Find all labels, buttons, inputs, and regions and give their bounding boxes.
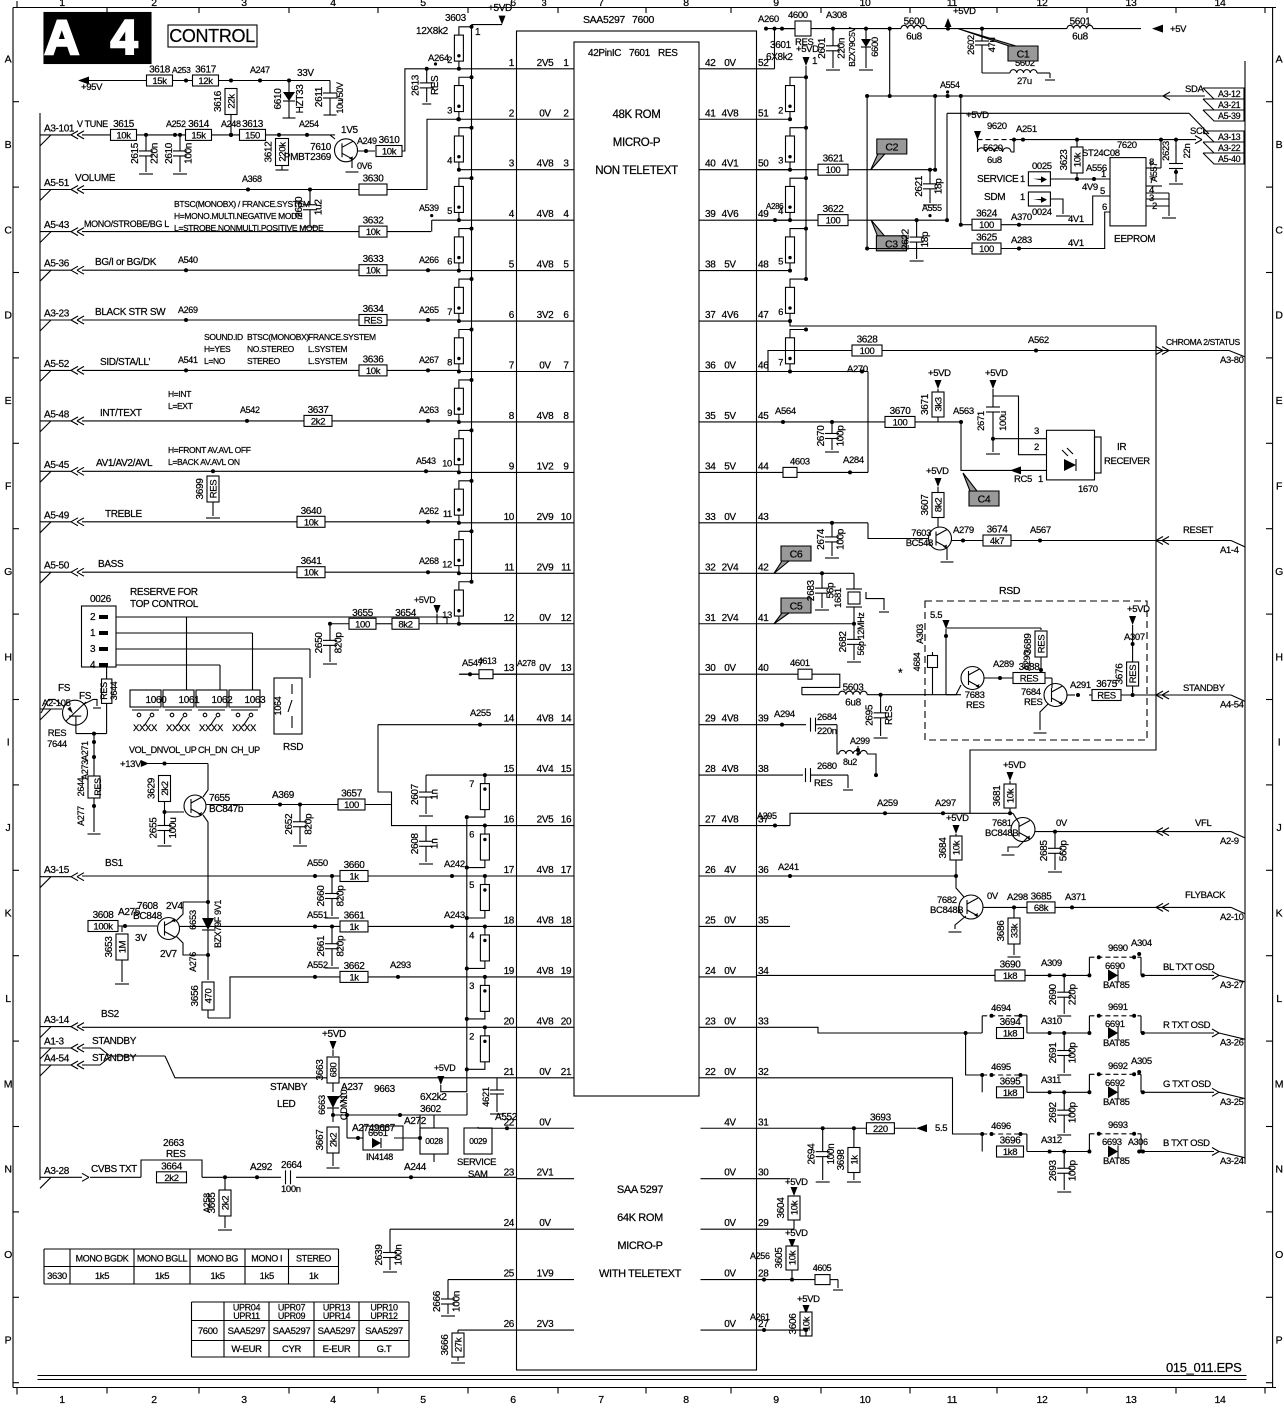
svg-text:0V: 0V xyxy=(539,613,551,624)
svg-text:3628: 3628 xyxy=(857,335,879,346)
svg-text:3634: 3634 xyxy=(363,304,385,315)
resistor 3601-3 xyxy=(804,126,808,130)
inductor 5603 6u8 xyxy=(802,694,839,696)
CONTROL label box xyxy=(168,25,257,47)
svg-text:100: 100 xyxy=(344,800,359,811)
svg-text:RES: RES xyxy=(430,75,441,95)
svg-text:3616: 3616 xyxy=(213,90,224,112)
svg-text:5601: 5601 xyxy=(1070,17,1092,28)
svg-text:2683: 2683 xyxy=(806,579,817,601)
svg-text:0V: 0V xyxy=(724,512,736,523)
svg-text:100: 100 xyxy=(826,216,841,227)
svg-text:0V6: 0V6 xyxy=(357,161,372,171)
pin row right 51 (net 4V8) xyxy=(699,118,757,120)
svg-text:O: O xyxy=(4,1249,12,1261)
pin row left 4 (net 4V8) xyxy=(517,219,575,221)
svg-text:5V: 5V xyxy=(724,461,736,472)
svg-text:A4-54: A4-54 xyxy=(1220,700,1244,711)
svg-text:G: G xyxy=(4,566,12,578)
wire row18 line 3661 xyxy=(179,925,340,927)
svg-text:3656: 3656 xyxy=(190,985,201,1007)
svg-text:A279: A279 xyxy=(953,525,974,536)
svg-text:E-EUR: E-EUR xyxy=(323,1344,351,1355)
resistor 3621 100 xyxy=(757,169,819,171)
svg-text:A551: A551 xyxy=(307,910,328,921)
svg-text:3: 3 xyxy=(563,159,569,170)
svg-text:AV1/AV2/AVL: AV1/AV2/AVL xyxy=(96,458,153,469)
svg-text:2V4: 2V4 xyxy=(722,562,740,573)
pin row right 43 (net 0V) xyxy=(699,522,757,524)
svg-text:A262: A262 xyxy=(419,506,439,516)
svg-text:L: L xyxy=(1276,993,1282,1005)
resistor 3633 10k xyxy=(359,265,387,276)
svg-text:2623: 2623 xyxy=(1161,141,1172,161)
svg-text:1k: 1k xyxy=(849,1155,860,1165)
resistor 3605 10k xyxy=(786,1246,798,1270)
svg-text:RC5: RC5 xyxy=(1014,474,1032,485)
resistor 3603-11 xyxy=(470,479,474,483)
resistor 3614 15k xyxy=(186,129,212,140)
svg-text:C1: C1 xyxy=(1017,49,1030,61)
svg-text:27: 27 xyxy=(705,815,716,826)
pin row right 41 (net 2V4) xyxy=(699,623,757,625)
pin row left 22 (net 0V) xyxy=(517,1127,575,1129)
svg-text:A: A xyxy=(5,54,12,66)
svg-text:3: 3 xyxy=(241,1394,247,1406)
svg-text:9692: 9692 xyxy=(1108,1061,1128,1072)
svg-text:BS1: BS1 xyxy=(105,858,124,869)
svg-text:3: 3 xyxy=(509,159,515,170)
svg-text:1: 1 xyxy=(1038,474,1043,485)
svg-text:A563: A563 xyxy=(953,406,974,417)
svg-text:A298: A298 xyxy=(1007,892,1028,903)
link 4684 xyxy=(928,656,938,668)
svg-text:1: 1 xyxy=(563,58,569,69)
resistor 3685 68k xyxy=(1027,902,1055,913)
svg-text:5: 5 xyxy=(1100,186,1105,197)
svg-text:2650: 2650 xyxy=(314,632,325,654)
svg-text:33k: 33k xyxy=(1010,923,1021,938)
svg-text:42PinIC: 42PinIC xyxy=(588,48,621,59)
svg-text:2601: 2601 xyxy=(817,37,828,59)
svg-text:8: 8 xyxy=(509,411,515,422)
svg-text:33: 33 xyxy=(758,1016,769,1027)
pin row left 20 (net 4V8) xyxy=(517,1026,575,1028)
svg-text:BC847b: BC847b xyxy=(209,804,244,815)
svg-text:2: 2 xyxy=(151,1394,157,1406)
svg-text:4V8: 4V8 xyxy=(537,209,555,220)
svg-text:RES: RES xyxy=(814,778,832,789)
resistor 3608 100k xyxy=(88,921,118,932)
svg-text:+95V: +95V xyxy=(81,82,103,93)
resistor 3603-12 xyxy=(470,529,474,533)
svg-text:K: K xyxy=(5,908,12,920)
svg-text:STANDBY: STANDBY xyxy=(92,1036,137,1047)
wire TREBLE line xyxy=(82,521,297,523)
svg-text:820p: 820p xyxy=(334,632,345,654)
svg-text:3V: 3V xyxy=(135,933,147,944)
svg-text:10: 10 xyxy=(442,458,452,469)
svg-text:3614: 3614 xyxy=(188,119,210,130)
svg-text:A368: A368 xyxy=(242,174,262,184)
svg-text:1061: 1061 xyxy=(179,695,201,706)
svg-text:3663: 3663 xyxy=(315,1059,326,1081)
svg-text:J: J xyxy=(1277,822,1282,834)
svg-text:29: 29 xyxy=(705,714,716,725)
svg-text:RES: RES xyxy=(48,728,66,739)
svg-text:M: M xyxy=(4,1078,12,1090)
svg-text:+5VD: +5VD xyxy=(785,1177,808,1188)
svg-text:+5VD: +5VD xyxy=(1003,760,1026,771)
svg-text:FLYBACK: FLYBACK xyxy=(1185,890,1226,901)
svg-text:1k5: 1k5 xyxy=(210,1271,224,1282)
link 4605 xyxy=(815,1275,830,1285)
svg-text:3689: 3689 xyxy=(1023,633,1034,655)
capacitor 2652 820p xyxy=(298,803,302,807)
svg-text:7: 7 xyxy=(509,361,515,372)
svg-text:A562: A562 xyxy=(1028,335,1049,346)
capacitor 2674 100p xyxy=(830,521,834,525)
capacitor 2602 47u xyxy=(980,27,984,31)
svg-text:18: 18 xyxy=(561,915,572,926)
svg-text:100: 100 xyxy=(355,619,370,630)
IC 7601 inner box xyxy=(574,42,699,1096)
svg-text:1k: 1k xyxy=(349,972,359,983)
svg-text:100p: 100p xyxy=(1068,1160,1079,1182)
svg-text:32: 32 xyxy=(705,562,716,573)
svg-text:15: 15 xyxy=(504,764,515,775)
svg-text:A552: A552 xyxy=(307,960,328,971)
svg-text:BL TXT OSD: BL TXT OSD xyxy=(1163,962,1215,973)
resistor 3693 220 xyxy=(866,1123,894,1134)
svg-text:6: 6 xyxy=(509,310,515,321)
resistor 3625 100 xyxy=(867,248,972,250)
svg-text:43: 43 xyxy=(758,512,769,523)
svg-text:RSD: RSD xyxy=(283,742,303,753)
wire row6 long route to VFL base xyxy=(790,321,1156,813)
svg-text:5V: 5V xyxy=(724,411,736,422)
svg-text:7655: 7655 xyxy=(209,793,231,804)
svg-text:A255: A255 xyxy=(470,708,491,719)
svg-text:A237: A237 xyxy=(341,1082,364,1093)
svg-text:21: 21 xyxy=(561,1067,572,1078)
svg-text:A260: A260 xyxy=(758,14,779,25)
svg-text:64K ROM: 64K ROM xyxy=(617,1212,663,1224)
resistor 3636 10k xyxy=(359,365,387,376)
svg-text:3601: 3601 xyxy=(770,40,792,51)
svg-text:1M: 1M xyxy=(118,940,129,953)
link 4601 xyxy=(798,669,812,679)
wire B TXT OSD from row21 xyxy=(757,1078,983,1134)
svg-text:7: 7 xyxy=(778,358,783,369)
svg-text:7644: 7644 xyxy=(47,739,67,750)
svg-text:LED: LED xyxy=(277,1099,296,1110)
resistor 3665 2k2 xyxy=(223,1175,227,1179)
svg-text:PMBT2369: PMBT2369 xyxy=(284,152,332,163)
svg-text:2: 2 xyxy=(1034,442,1039,453)
svg-text:100: 100 xyxy=(979,244,994,255)
svg-text:680: 680 xyxy=(329,1063,340,1078)
svg-text:2608: 2608 xyxy=(410,833,421,855)
svg-text:2695: 2695 xyxy=(865,704,876,726)
pin row left 6 (net 3V2) xyxy=(517,320,575,322)
svg-text:6: 6 xyxy=(510,1394,516,1406)
pin row right 52 (net 0V) xyxy=(699,68,757,70)
svg-text:A5-48: A5-48 xyxy=(44,409,70,420)
resistor 3670 100 xyxy=(885,416,915,427)
svg-text:P: P xyxy=(5,1335,12,1347)
wire LED node to 9663 xyxy=(333,1114,430,1116)
svg-text:3695: 3695 xyxy=(1000,1076,1022,1087)
svg-text:H=FRONT AV.AVL OFF: H=FRONT AV.AVL OFF xyxy=(168,445,251,455)
svg-text:L.SYSTEM: L.SYSTEM xyxy=(308,344,348,354)
svg-text:22k: 22k xyxy=(227,94,238,109)
svg-text:14: 14 xyxy=(561,714,572,725)
capacitor 2682 56p xyxy=(852,622,856,626)
svg-text:0V: 0V xyxy=(987,891,999,902)
svg-text:3676: 3676 xyxy=(1115,663,1126,685)
capacitor 2670 100p xyxy=(830,420,834,424)
svg-text:8k2: 8k2 xyxy=(934,498,945,512)
svg-text:+5VD: +5VD xyxy=(434,1063,456,1073)
svg-text:0V: 0V xyxy=(724,915,736,926)
pin row left 7 (net 0V) xyxy=(517,371,575,373)
svg-text:L.SYSTEM: L.SYSTEM xyxy=(308,356,348,366)
svg-text:+5VD: +5VD xyxy=(785,1228,808,1239)
svg-text:38: 38 xyxy=(705,260,716,271)
svg-text:MONO BGDK: MONO BGDK xyxy=(76,1254,129,1264)
svg-text:4V8: 4V8 xyxy=(722,108,740,119)
svg-text:2k2: 2k2 xyxy=(160,781,171,795)
svg-text:C5: C5 xyxy=(790,601,803,613)
svg-text:4V1: 4V1 xyxy=(1068,238,1084,249)
svg-text:A252: A252 xyxy=(166,119,186,129)
svg-text:13: 13 xyxy=(561,663,572,674)
svg-text:25: 25 xyxy=(504,1269,515,1280)
svg-text:4V8: 4V8 xyxy=(537,714,555,725)
svg-text:G TXT OSD: G TXT OSD xyxy=(1163,1079,1211,1090)
svg-text:4V6: 4V6 xyxy=(722,310,740,321)
jumper 0028 box xyxy=(420,1128,448,1154)
svg-text:+5VD: +5VD xyxy=(966,110,989,121)
svg-text:A541: A541 xyxy=(178,355,198,365)
capacitor 2607 1n xyxy=(425,775,427,792)
svg-text:17: 17 xyxy=(504,865,515,876)
svg-text:2V3: 2V3 xyxy=(537,1319,555,1330)
diode 6690 BAT85 + 9690 dashed xyxy=(1087,973,1091,977)
svg-text:1060: 1060 xyxy=(146,695,168,706)
svg-text:18: 18 xyxy=(504,915,515,926)
flag C5 xyxy=(774,598,811,624)
resistor 3628 100 xyxy=(852,345,882,356)
svg-text:A307: A307 xyxy=(1124,632,1145,643)
svg-text:2607: 2607 xyxy=(410,783,421,805)
svg-text:5.5: 5.5 xyxy=(930,610,942,621)
svg-text:NO.STEREO: NO.STEREO xyxy=(247,344,295,354)
svg-text:560p: 560p xyxy=(1059,840,1070,862)
resistor 3602-4 xyxy=(483,924,487,928)
svg-text:6u8: 6u8 xyxy=(845,698,861,709)
svg-text:100n: 100n xyxy=(184,143,195,164)
svg-text:2670: 2670 xyxy=(816,425,827,447)
svg-text:2685: 2685 xyxy=(1039,840,1050,862)
svg-text:0V: 0V xyxy=(539,663,551,674)
svg-text:H=INT: H=INT xyxy=(168,389,191,399)
svg-text:A3-24: A3-24 xyxy=(1220,1156,1244,1167)
svg-text:3632: 3632 xyxy=(363,216,385,227)
resistor 3686 33k xyxy=(1013,907,1015,918)
svg-text:3: 3 xyxy=(447,105,452,116)
svg-text:K: K xyxy=(1276,908,1283,920)
capacitor 2630 1u2 xyxy=(308,188,312,192)
svg-text:RES: RES xyxy=(966,700,984,711)
svg-text:015_011.EPS: 015_011.EPS xyxy=(1166,1360,1242,1375)
resistor 3655 100 xyxy=(349,618,376,629)
pin row right 48 (net 5V) xyxy=(699,270,757,272)
svg-text:1u2: 1u2 xyxy=(314,199,325,215)
svg-text:0V: 0V xyxy=(724,1218,736,1229)
resistor 3684 10k xyxy=(950,836,962,860)
svg-text:0V: 0V xyxy=(724,58,736,69)
svg-text:3607: 3607 xyxy=(920,494,931,516)
svg-text:2680: 2680 xyxy=(817,761,837,772)
svg-text:A248: A248 xyxy=(221,119,241,129)
resistor 3622 100 xyxy=(757,219,819,221)
svg-text:2: 2 xyxy=(778,105,783,116)
svg-text:7620: 7620 xyxy=(1117,140,1137,151)
svg-text:1: 1 xyxy=(475,27,481,38)
svg-text:A370: A370 xyxy=(1011,212,1032,223)
pin row left 15 (net 4V4) xyxy=(517,774,575,776)
svg-text:2: 2 xyxy=(151,0,157,9)
svg-text:E: E xyxy=(5,395,12,407)
svg-text:UPR09: UPR09 xyxy=(278,1311,306,1321)
svg-text:N: N xyxy=(1275,1164,1282,1176)
svg-text:1: 1 xyxy=(509,58,515,69)
svg-text:BAT85: BAT85 xyxy=(1103,1156,1130,1167)
svg-text:26: 26 xyxy=(504,1319,515,1330)
svg-text:100: 100 xyxy=(860,346,875,357)
svg-text:A241: A241 xyxy=(778,862,799,873)
svg-text:C6: C6 xyxy=(790,549,803,561)
svg-text:3610: 3610 xyxy=(379,135,401,146)
svg-text:A3-15: A3-15 xyxy=(44,865,70,876)
svg-text:220: 220 xyxy=(873,1124,888,1135)
svg-text:2V4: 2V4 xyxy=(722,613,740,624)
svg-text:A308: A308 xyxy=(826,10,847,21)
svg-text:3698: 3698 xyxy=(836,1149,847,1171)
svg-text:21: 21 xyxy=(504,1067,515,1078)
svg-text:3641: 3641 xyxy=(301,556,323,567)
svg-text:10k: 10k xyxy=(116,130,131,141)
svg-text:12k: 12k xyxy=(198,76,213,87)
svg-text:3625: 3625 xyxy=(976,233,998,244)
transistor 7603 BC548 xyxy=(929,527,952,550)
svg-text:4V8: 4V8 xyxy=(537,966,555,977)
svg-text:10k: 10k xyxy=(304,568,319,579)
svg-text:4: 4 xyxy=(330,0,336,9)
svg-text:A371: A371 xyxy=(1065,892,1086,903)
svg-text:29: 29 xyxy=(758,1218,769,1229)
wire VOLUME line xyxy=(82,189,248,191)
svg-text:4600: 4600 xyxy=(788,10,808,21)
resistor 3623 10k xyxy=(1075,138,1079,142)
svg-text:CHROMA 2/STATUS: CHROMA 2/STATUS xyxy=(1166,337,1240,347)
svg-text:9: 9 xyxy=(563,461,569,472)
svg-text:3: 3 xyxy=(241,0,247,9)
svg-text:0V: 0V xyxy=(539,1067,551,1078)
svg-text:3660: 3660 xyxy=(344,860,366,871)
svg-text:A1-4: A1-4 xyxy=(1220,545,1239,556)
svg-text:2684: 2684 xyxy=(817,712,837,723)
wire 7644 collector to ground xyxy=(84,699,97,706)
pin row right 34 (net 0V) xyxy=(699,976,757,978)
transistor 7644 FS sensor xyxy=(63,700,88,725)
svg-text:3V2: 3V2 xyxy=(537,310,555,321)
wire G TXT OSD xyxy=(966,1033,983,1075)
svg-text:1: 1 xyxy=(1101,169,1106,180)
svg-text:12: 12 xyxy=(561,613,572,624)
resistor 3699 RES shunt xyxy=(211,469,215,473)
svg-text:0V: 0V xyxy=(539,1218,551,1229)
svg-text:STEREO: STEREO xyxy=(296,1254,331,1264)
svg-text:A3-12: A3-12 xyxy=(1218,89,1241,99)
svg-text:MONO BGLL: MONO BGLL xyxy=(137,1254,188,1264)
svg-text:RSD: RSD xyxy=(999,585,1021,597)
resistor 3653 1M xyxy=(121,926,123,932)
svg-text:45: 45 xyxy=(758,411,769,422)
svg-text:1064: 1064 xyxy=(273,696,283,715)
svg-text:28: 28 xyxy=(705,764,716,775)
svg-text:4695: 4695 xyxy=(991,1062,1011,1073)
svg-text:+5V: +5V xyxy=(1170,24,1187,35)
wire row14 2684 5605 xyxy=(757,724,807,726)
svg-text:40: 40 xyxy=(705,159,716,170)
wire row25 4605 xyxy=(757,1279,816,1281)
svg-text:3644: 3644 xyxy=(109,681,119,700)
svg-text:A5-39: A5-39 xyxy=(1218,111,1241,121)
capacitor 2613 RES xyxy=(426,69,428,83)
svg-text:22n: 22n xyxy=(1182,144,1193,159)
svg-text:4V8: 4V8 xyxy=(537,1016,555,1027)
svg-text:A289: A289 xyxy=(993,659,1014,670)
svg-text:12: 12 xyxy=(1037,1394,1048,1406)
resistor 3601-7 xyxy=(804,328,808,332)
svg-text:MONO/STROBE/BG L: MONO/STROBE/BG L xyxy=(84,219,169,229)
svg-text:2690: 2690 xyxy=(1048,983,1059,1005)
svg-text:A256: A256 xyxy=(750,1251,770,1261)
svg-text:1: 1 xyxy=(1020,174,1025,185)
svg-text:100: 100 xyxy=(893,417,908,428)
svg-text:7: 7 xyxy=(598,1394,604,1406)
svg-text:100: 100 xyxy=(979,220,994,231)
svg-text:A3-101: A3-101 xyxy=(44,123,75,134)
svg-text:2k2: 2k2 xyxy=(164,1173,178,1184)
svg-text:3693: 3693 xyxy=(870,1112,892,1123)
svg-text:A5-40: A5-40 xyxy=(1218,154,1241,164)
wire row23 stub xyxy=(757,1178,791,1180)
svg-text:19: 19 xyxy=(561,966,572,977)
wire riser SDA to 3624 xyxy=(960,96,962,225)
capacitor 2621 18p xyxy=(928,168,932,172)
resistor 3674 4k7 xyxy=(983,535,1011,546)
resistor 3654 8k2 xyxy=(392,618,419,629)
resistor 3603-7 xyxy=(470,277,474,281)
resistor combo 2663 RES / 3664 2k2 xyxy=(141,1160,202,1177)
svg-text:F: F xyxy=(5,481,11,493)
wire A369 line to 3657 xyxy=(207,804,339,806)
svg-text:6: 6 xyxy=(563,310,569,321)
